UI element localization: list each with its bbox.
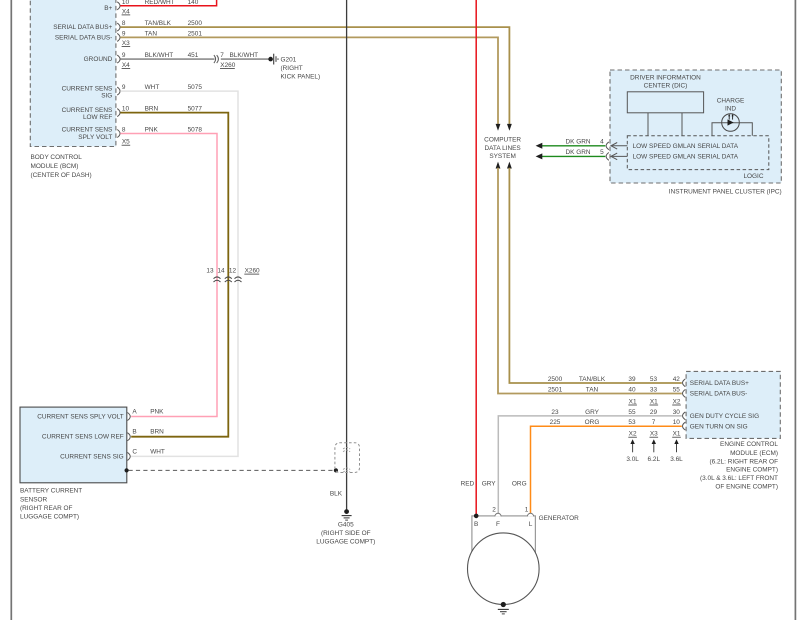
charge indicator lamp circuit wires (712, 123, 752, 136)
ground G201 (268, 54, 320, 81)
svg-text:GROUND: GROUND (84, 56, 113, 63)
svg-text:5075: 5075 (188, 84, 203, 91)
svg-text:LUGGAGE COMPT): LUGGAGE COMPT) (316, 539, 375, 546)
svg-text:TAN: TAN (586, 387, 599, 394)
wire BLK/WHT 451 (ground to X260) (120, 52, 214, 59)
BCM pin 8 (serial data bus+) (117, 20, 126, 31)
svg-text:BODY CONTROL: BODY CONTROL (31, 154, 83, 161)
svg-text:X260: X260 (245, 268, 260, 275)
svg-text:ENGINE COMPT): ENGINE COMPT) (726, 466, 778, 473)
svg-text:B+: B+ (104, 5, 112, 12)
svg-text:X3: X3 (650, 431, 658, 438)
svg-text:CHARGE: CHARGE (717, 97, 745, 104)
page right border (794, 0, 796, 620)
svg-text:WHT: WHT (150, 448, 165, 455)
ECM caption (700, 441, 778, 491)
sensor pin A (PNK) (127, 409, 164, 421)
svg-text:42: 42 (673, 376, 681, 383)
svg-text:X2: X2 (673, 399, 681, 406)
IPC logic box (627, 136, 769, 170)
svg-text:5077: 5077 (188, 106, 203, 113)
svg-text:GRY: GRY (482, 480, 497, 487)
svg-text:8: 8 (122, 127, 126, 134)
svg-text:L: L (529, 521, 533, 528)
IPC internal arrow pin 4 (611, 143, 627, 150)
svg-text:7: 7 (220, 52, 224, 59)
svg-text:X3: X3 (122, 40, 130, 47)
arrow 3.0L (626, 439, 639, 463)
wire GRY 23 (generator F to ECM gen duty cycle sig) (498, 409, 685, 514)
ECM connector designators X1 X1 X2 (628, 399, 681, 406)
wire RED (top to generator B terminal) (475, 0, 477, 516)
BCM pin 8 current sens sply volt (X5) (117, 127, 130, 146)
svg-text:BLK: BLK (330, 491, 343, 498)
svg-text:9: 9 (122, 84, 126, 91)
svg-text:TAN/BLK: TAN/BLK (579, 376, 606, 383)
svg-text:3.0L: 3.0L (626, 456, 639, 463)
module IPC (instrument panel cluster) box (610, 70, 781, 183)
svg-text:TAN: TAN (145, 31, 158, 38)
wire RED/WHT 140 (B+) (120, 0, 216, 6)
svg-text:8: 8 (122, 20, 126, 27)
svg-text:DRIVER INFORMATION: DRIVER INFORMATION (630, 75, 701, 82)
svg-text:F: F (496, 521, 500, 528)
svg-text:PNK: PNK (150, 409, 164, 416)
ECM pin row labels for serial data bus- (548, 387, 685, 398)
svg-text:X1: X1 (629, 399, 637, 406)
svg-text:30: 30 (673, 409, 681, 416)
wire PNK 5078 (BCM to sensor pin A) (120, 127, 217, 417)
svg-text:LOW SPEED GMLAN SERIAL DATA: LOW SPEED GMLAN SERIAL DATA (633, 154, 739, 161)
svg-text:(CENTER OF DASH): (CENTER OF DASH) (31, 172, 92, 179)
in-line connector X260 pins 13/14/12 (sensor wires) (206, 268, 260, 282)
svg-text:DK GRN: DK GRN (565, 149, 590, 156)
svg-text:225: 225 (550, 419, 561, 426)
svg-text:SERIAL DATA BUS+: SERIAL DATA BUS+ (690, 380, 749, 387)
svg-text:14: 14 (217, 268, 225, 275)
svg-text:40: 40 (628, 387, 636, 394)
BCM pin 10 current sens low ref (117, 106, 129, 117)
svg-text:X4: X4 (122, 8, 130, 15)
svg-text:2501: 2501 (188, 31, 203, 38)
svg-text:SENSOR: SENSOR (20, 497, 48, 504)
wire color labels at generator (461, 480, 527, 487)
svg-text:DK GRN: DK GRN (565, 139, 590, 146)
svg-text:(6.2L: RIGHT REAR OF: (6.2L: RIGHT REAR OF (709, 458, 778, 465)
wire TAN 2501 (BCM to vertical) (120, 31, 498, 125)
wire BLK label (330, 491, 343, 498)
svg-text:(RIGHT: (RIGHT (281, 65, 303, 72)
svg-text:(RIGHT SIDE OF: (RIGHT SIDE OF (321, 530, 371, 537)
wire DK GRN 5 (IPC low speed gmlan) (536, 149, 609, 160)
generator terminal L pin 1 (525, 506, 534, 528)
svg-text:CURRENT SENS: CURRENT SENS (62, 127, 113, 134)
svg-text:7: 7 (652, 419, 656, 426)
svg-text:IND: IND (725, 105, 736, 112)
svg-text:G405: G405 (338, 522, 354, 529)
svg-text:55: 55 (673, 387, 681, 394)
svg-text:TAN/BLK: TAN/BLK (145, 20, 172, 27)
wire ORG 225 (generator L to ECM gen turn on sig) (531, 419, 686, 513)
ECM connector designators X2 X3 X1 with engine arrows (628, 431, 681, 438)
generator terminal B (battery dot) (474, 514, 479, 529)
svg-text:BLK/WHT: BLK/WHT (145, 52, 174, 59)
svg-text:B: B (474, 521, 478, 528)
in-line connector (dashed) on BLK drain wire (335, 443, 360, 473)
module BCM (body control module) box (30, 0, 116, 147)
svg-text:INSTRUMENT PANEL CLUSTER (IPC): INSTRUMENT PANEL CLUSTER (IPC) (669, 188, 782, 195)
svg-text:MODULE (ECM): MODULE (ECM) (730, 450, 778, 457)
wire BLK (top to G405 via in-line connector) (346, 0, 348, 511)
svg-text:X260: X260 (220, 62, 235, 69)
svg-text:10: 10 (122, 106, 130, 113)
svg-text:SPLY VOLT: SPLY VOLT (78, 134, 112, 141)
svg-text:GENERATOR: GENERATOR (539, 515, 580, 522)
svg-text:C: C (132, 448, 137, 455)
node computer data lines system reference (484, 124, 521, 169)
sensor pin C (WHT) (127, 448, 165, 460)
svg-text:29: 29 (650, 409, 658, 416)
arrow 6.2L (648, 439, 661, 463)
svg-text:ENGINE CONTROL: ENGINE CONTROL (720, 441, 778, 448)
svg-text:6.2L: 6.2L (648, 456, 661, 463)
svg-text:KICK PANEL): KICK PANEL) (281, 74, 321, 81)
BCM caption (31, 154, 92, 179)
svg-text:MODULE (BCM): MODULE (BCM) (31, 163, 79, 170)
svg-text:5: 5 (600, 149, 604, 156)
generator case ground (498, 602, 509, 614)
generator terminal F pin 2 (492, 506, 501, 528)
svg-text:13: 13 (206, 268, 214, 275)
svg-text:X2: X2 (629, 431, 637, 438)
svg-text:55: 55 (628, 409, 636, 416)
svg-text:53: 53 (650, 376, 658, 383)
svg-text:X4: X4 (122, 62, 130, 69)
sensor pin B (BRN) (127, 429, 164, 441)
svg-text:(RIGHT REAR OF: (RIGHT REAR OF (20, 505, 73, 512)
svg-text:1: 1 (525, 506, 529, 513)
svg-text:ORG: ORG (512, 480, 527, 487)
svg-text:10: 10 (673, 419, 681, 426)
svg-text:CURRENT SENS LOW REF: CURRENT SENS LOW REF (42, 434, 124, 441)
IPC caption (669, 188, 782, 195)
svg-text:LOW SPEED GMLAN SERIAL DATA: LOW SPEED GMLAN SERIAL DATA (633, 143, 739, 150)
svg-text:9: 9 (122, 52, 126, 59)
svg-text:2: 2 (492, 506, 496, 513)
svg-text:LUGGAGE COMPT): LUGGAGE COMPT) (20, 513, 79, 520)
svg-text:BRN: BRN (150, 429, 164, 436)
wire TAN/BLK 2500 (lower vertical to ECM serial data bus+) (509, 168, 681, 383)
wire DK GRN 4 (IPC low speed gmlan) (536, 139, 609, 150)
svg-text:X1: X1 (650, 399, 658, 406)
wire TAN 2501 (lower vertical to ECM serial data bus-) (498, 168, 682, 394)
module battery current sensor box (20, 407, 127, 483)
battery current sensor caption (20, 487, 82, 520)
svg-text:B: B (132, 429, 136, 436)
BCM pin B+ (10, X4) (117, 0, 130, 15)
svg-text:ORG: ORG (585, 419, 600, 426)
svg-text:SYSTEM: SYSTEM (489, 153, 515, 160)
svg-text:WHT: WHT (145, 84, 160, 91)
svg-text:2501: 2501 (548, 387, 563, 394)
svg-text:39: 39 (628, 376, 636, 383)
wire BLK/WHT (X260 to G201) (221, 52, 269, 59)
charge indicator lamp (722, 114, 740, 132)
BCM pin 9 current sens sig (117, 84, 126, 95)
wire DIC to logic box (right) (681, 113, 683, 136)
generator G1 (468, 515, 580, 605)
module ECM (engine control module) box (686, 371, 780, 438)
svg-text:9: 9 (122, 31, 126, 38)
wire BRN 5077 (BCM to sensor pin B) (120, 106, 228, 437)
svg-text:5078: 5078 (188, 127, 203, 134)
svg-text:SIG: SIG (101, 92, 112, 99)
page left border (10, 0, 12, 620)
shield drain junction at BLK wire (334, 468, 338, 472)
svg-text:2500: 2500 (188, 20, 203, 27)
svg-text:BRN: BRN (145, 106, 159, 113)
in-line connector X260 pin 7 (ground wire) (214, 52, 236, 69)
svg-text:GEN DUTY CYCLE SIG: GEN DUTY CYCLE SIG (690, 413, 759, 420)
svg-text:33: 33 (650, 387, 658, 394)
svg-text:BLK/WHT: BLK/WHT (230, 52, 259, 59)
DIC display block U1 (627, 92, 703, 113)
svg-text:12: 12 (229, 268, 237, 275)
svg-text:(3.0L & 3.6L: LEFT FRONT: (3.0L & 3.6L: LEFT FRONT (700, 475, 778, 482)
svg-text:3.6L: 3.6L (670, 456, 683, 463)
svg-text:CURRENT SENS: CURRENT SENS (62, 107, 113, 114)
svg-text:CURRENT SENS SIG: CURRENT SENS SIG (60, 453, 124, 460)
svg-text:451: 451 (188, 52, 199, 59)
svg-text:CENTER (DIC): CENTER (DIC) (644, 83, 688, 90)
IPC internal arrow pin 5 (611, 153, 627, 160)
svg-text:SERIAL DATA BUS-: SERIAL DATA BUS- (55, 34, 112, 41)
svg-text:RED: RED (461, 480, 475, 487)
svg-text:SERIAL DATA BUS+: SERIAL DATA BUS+ (53, 24, 112, 31)
wire shield drain (dashed) (129, 469, 335, 471)
shield drain junction at sensor (125, 468, 129, 472)
ECM pin row labels for serial data bus+ (548, 376, 685, 387)
svg-text:OF ENGINE COMPT): OF ENGINE COMPT) (715, 484, 778, 491)
ground G405 (316, 509, 375, 545)
svg-text:RED/WHT: RED/WHT (145, 0, 175, 6)
svg-text:CURRENT SENS SPLY VOLT: CURRENT SENS SPLY VOLT (37, 414, 124, 421)
wire DIC to logic box (left) (647, 113, 649, 136)
svg-text:DATA LINES: DATA LINES (484, 145, 520, 152)
svg-text:PNK: PNK (145, 127, 159, 134)
svg-text:2500: 2500 (548, 376, 563, 383)
BCM pin 9 (serial data bus-) (117, 31, 130, 48)
svg-text:23: 23 (551, 409, 559, 416)
svg-text:G201: G201 (281, 56, 297, 63)
svg-text:10: 10 (122, 0, 130, 6)
svg-text:COMPUTER: COMPUTER (484, 137, 521, 144)
svg-text:A: A (132, 409, 137, 416)
svg-text:SERIAL DATA BUS-: SERIAL DATA BUS- (690, 391, 747, 398)
wire WHT 5075 (BCM to sensor pin C) (120, 84, 238, 456)
svg-text:GEN TURN ON SIG: GEN TURN ON SIG (690, 423, 748, 430)
svg-text:X1: X1 (673, 431, 681, 438)
svg-text:53: 53 (628, 419, 636, 426)
wire TAN/BLK 2500 (BCM to vertical) (120, 20, 509, 124)
svg-text:LOW REF: LOW REF (83, 114, 112, 121)
svg-text:140: 140 (188, 0, 199, 6)
BCM pin 9 ground (X4) (117, 52, 130, 69)
arrow 3.6L (670, 439, 683, 463)
svg-text:LOGIC: LOGIC (743, 173, 763, 180)
svg-text:4: 4 (600, 139, 604, 146)
svg-text:BATTERY CURRENT: BATTERY CURRENT (20, 487, 82, 494)
svg-text:GRY: GRY (585, 409, 600, 416)
svg-text:X5: X5 (122, 139, 130, 146)
